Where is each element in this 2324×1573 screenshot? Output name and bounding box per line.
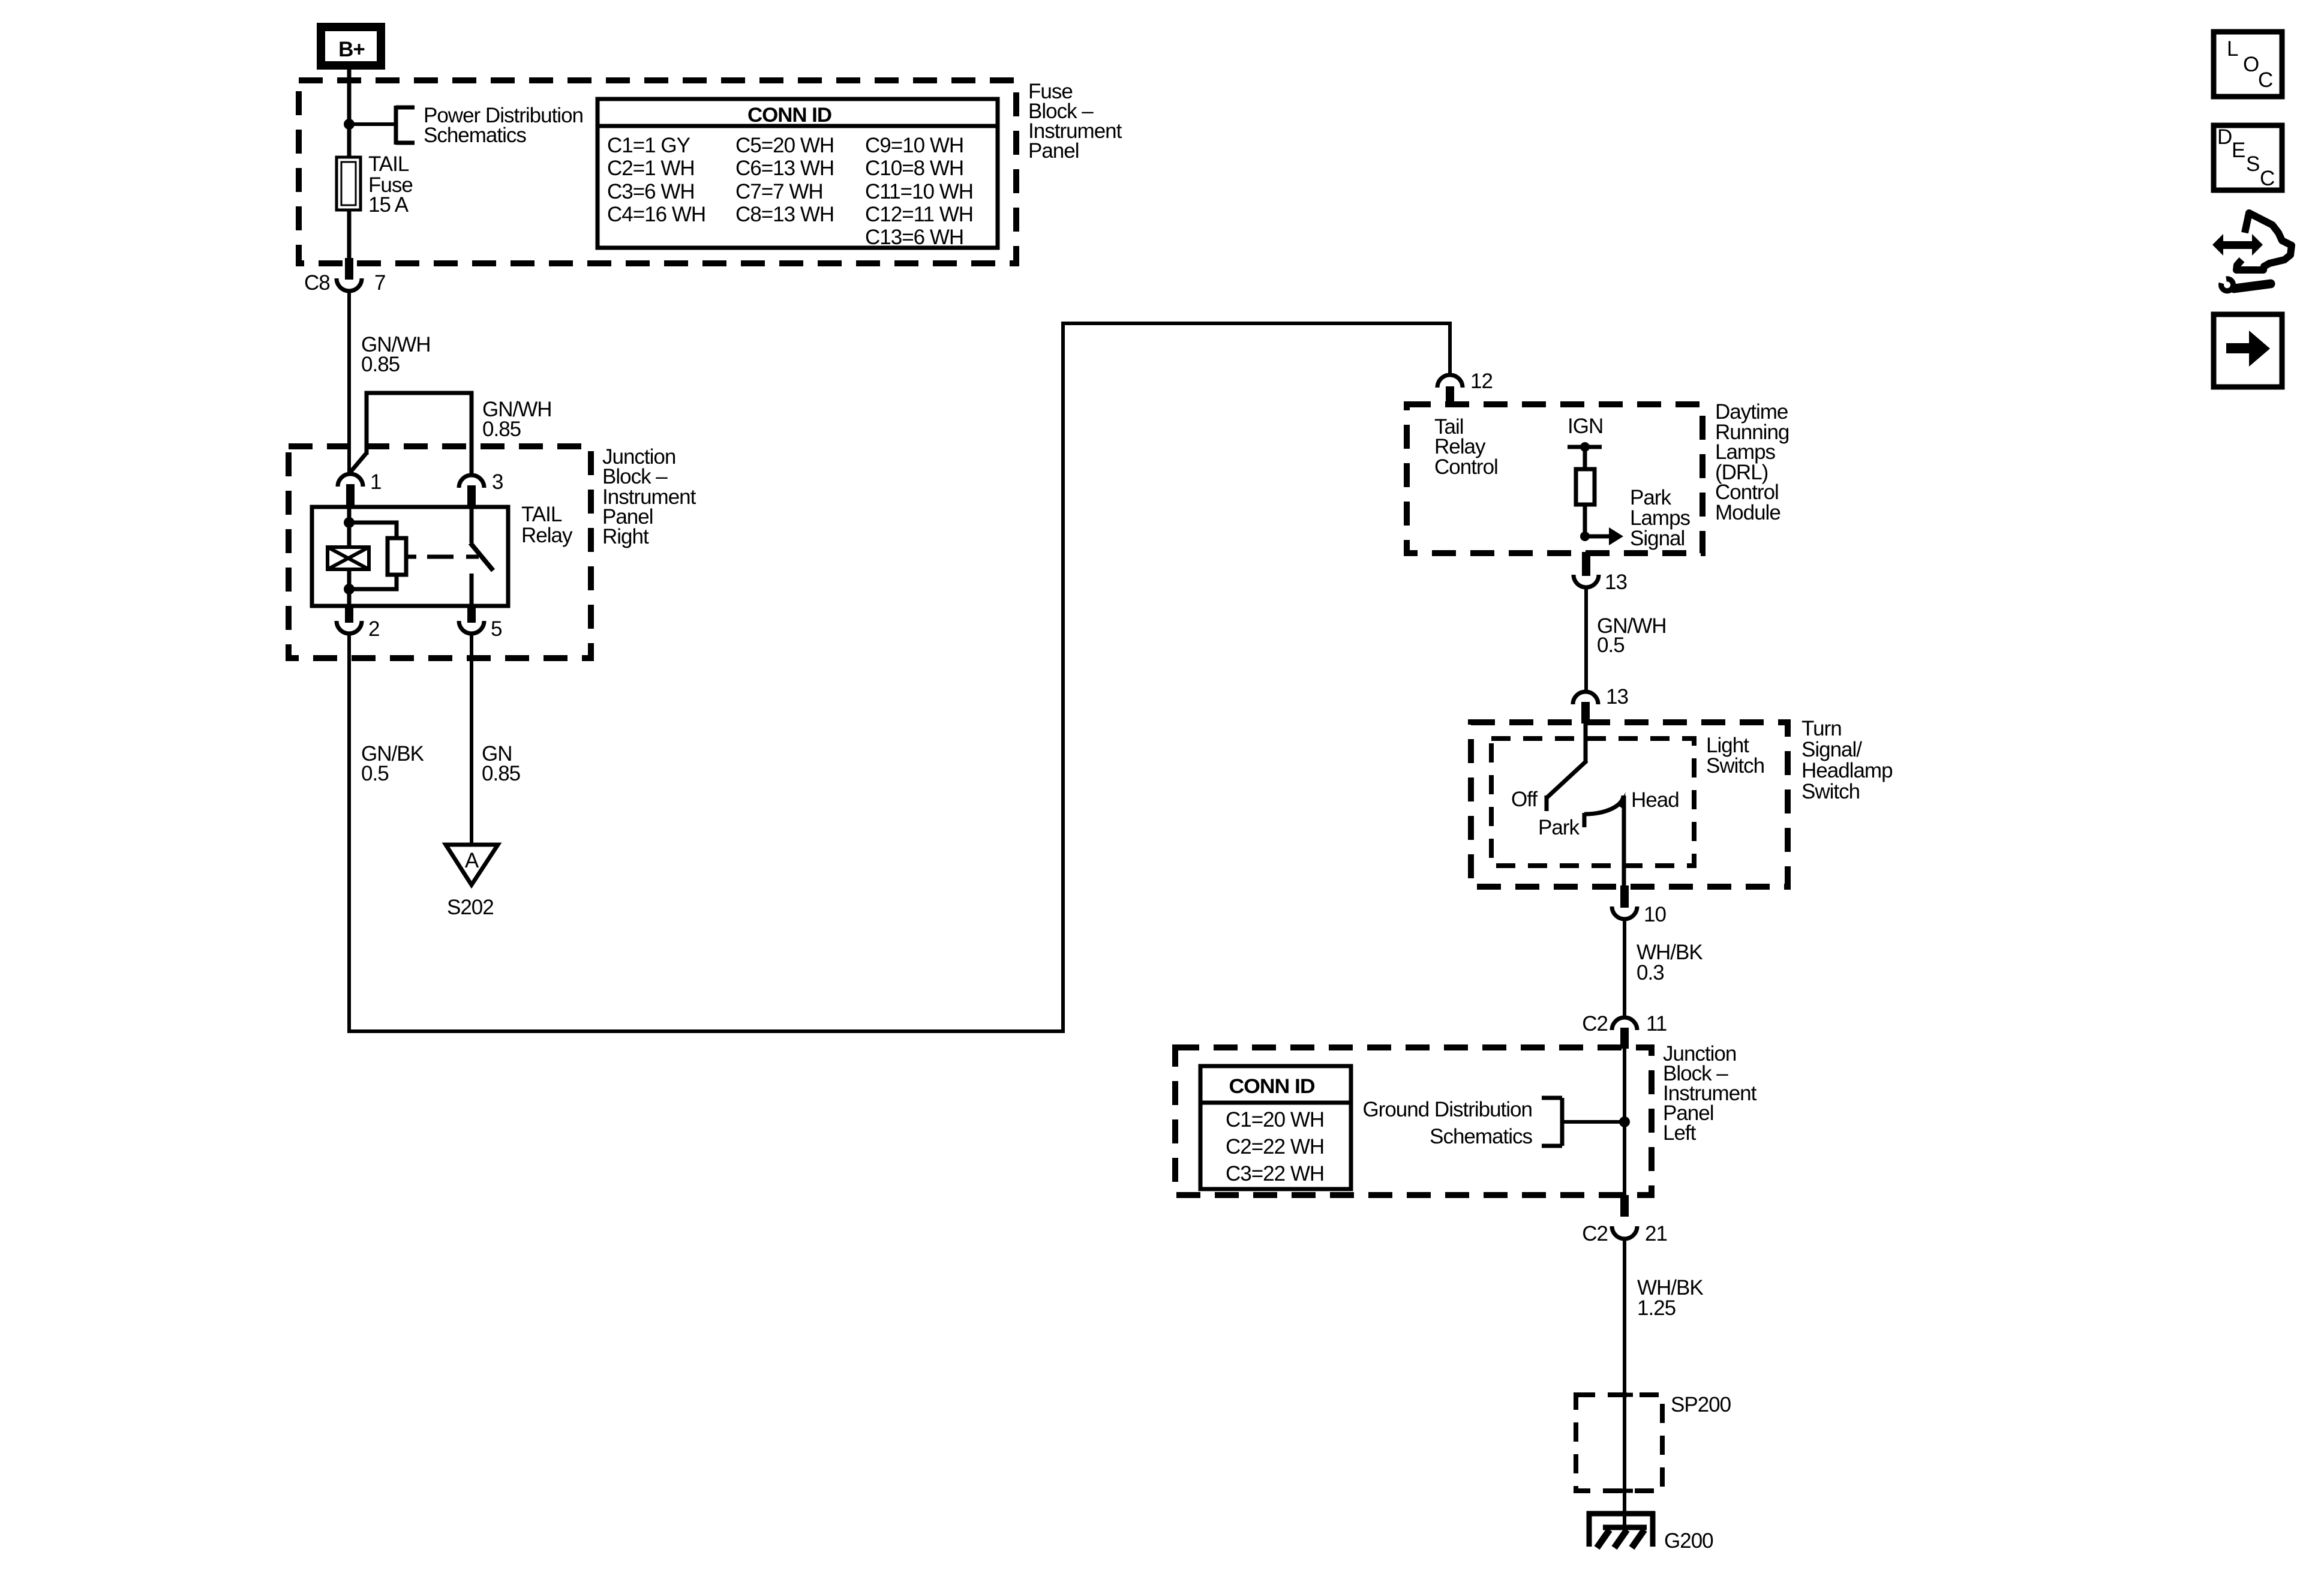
svg-text:C10=8 WH: C10=8 WH: [865, 157, 963, 180]
svg-text:Switch: Switch: [1801, 780, 1860, 803]
svg-text:C1=20 WH: C1=20 WH: [1226, 1108, 1324, 1131]
svg-text:Signal: Signal: [1630, 527, 1685, 550]
svg-text:Signal/: Signal/: [1801, 738, 1862, 761]
svg-text:7: 7: [374, 271, 385, 295]
svg-text:0.85: 0.85: [482, 762, 520, 785]
svg-text:C: C: [2260, 167, 2274, 190]
svg-text:L: L: [2227, 37, 2238, 61]
svg-text:15 A: 15 A: [368, 193, 409, 217]
svg-text:C5=20 WH: C5=20 WH: [735, 134, 834, 157]
svg-text:CONN ID: CONN ID: [747, 104, 831, 127]
svg-text:C: C: [2258, 68, 2272, 92]
svg-text:0.85: 0.85: [361, 353, 400, 376]
svg-text:Ground Distribution: Ground Distribution: [1362, 1098, 1532, 1121]
svg-text:C7=7 WH: C7=7 WH: [735, 180, 823, 203]
svg-text:C1=1 GY: C1=1 GY: [607, 134, 690, 157]
svg-text:D: D: [2217, 125, 2232, 149]
svg-text:C9=10 WH: C9=10 WH: [865, 134, 963, 157]
svg-text:12: 12: [1470, 370, 1493, 393]
svg-text:TAIL: TAIL: [521, 503, 562, 526]
svg-text:3: 3: [492, 470, 503, 494]
svg-text:C3=6 WH: C3=6 WH: [607, 180, 695, 203]
svg-text:Module: Module: [1715, 501, 1780, 524]
svg-text:0.5: 0.5: [361, 762, 389, 785]
svg-text:O: O: [2243, 53, 2259, 76]
svg-text:Head: Head: [1631, 788, 1679, 812]
svg-text:B+: B+: [338, 38, 365, 61]
svg-text:G200: G200: [1664, 1529, 1713, 1553]
svg-text:C6=13 WH: C6=13 WH: [735, 157, 834, 180]
svg-text:10: 10: [1644, 903, 1666, 926]
svg-text:Right: Right: [602, 525, 649, 548]
svg-text:S202: S202: [447, 896, 494, 919]
svg-text:Panel: Panel: [1028, 139, 1079, 163]
svg-text:13: 13: [1606, 685, 1628, 709]
svg-text:Switch: Switch: [1706, 754, 1764, 778]
svg-text:13: 13: [1605, 571, 1627, 594]
svg-text:C8: C8: [304, 271, 330, 295]
svg-text:0.85: 0.85: [482, 418, 521, 441]
svg-text:S: S: [2246, 152, 2259, 176]
svg-text:Control: Control: [1434, 455, 1498, 479]
svg-text:CONN ID: CONN ID: [1229, 1075, 1315, 1098]
svg-text:Turn: Turn: [1801, 717, 1842, 740]
svg-text:TAIL: TAIL: [368, 152, 409, 176]
svg-text:Left: Left: [1663, 1121, 1697, 1145]
svg-text:C4=16 WH: C4=16 WH: [607, 203, 705, 226]
svg-text:1.25: 1.25: [1637, 1296, 1676, 1320]
svg-text:5: 5: [491, 617, 502, 641]
svg-text:Off: Off: [1511, 788, 1538, 811]
svg-text:0.3: 0.3: [1637, 961, 1664, 984]
svg-text:C2: C2: [1582, 1012, 1608, 1035]
svg-text:SP200: SP200: [1671, 1393, 1731, 1416]
svg-text:11: 11: [1646, 1012, 1667, 1035]
svg-text:Schematics: Schematics: [1430, 1125, 1532, 1148]
svg-text:C2: C2: [1582, 1222, 1608, 1245]
svg-text:Park: Park: [1538, 816, 1580, 839]
svg-text:Schematics: Schematics: [424, 124, 526, 147]
svg-text:C11=10 WH: C11=10 WH: [865, 180, 973, 203]
svg-text:Headlamp: Headlamp: [1801, 759, 1893, 782]
svg-text:E: E: [2232, 139, 2245, 162]
svg-text:C13=6 WH: C13=6 WH: [865, 226, 963, 249]
svg-text:C3=22 WH: C3=22 WH: [1226, 1162, 1324, 1185]
svg-text:IGN: IGN: [1568, 415, 1603, 438]
svg-text:0.5: 0.5: [1597, 634, 1625, 657]
svg-text:A: A: [465, 849, 479, 872]
svg-text:Relay: Relay: [521, 524, 573, 547]
svg-text:C8=13 WH: C8=13 WH: [735, 203, 834, 226]
svg-text:C12=11 WH: C12=11 WH: [865, 203, 973, 226]
svg-text:C2=1 WH: C2=1 WH: [607, 157, 695, 180]
svg-text:C2=22 WH: C2=22 WH: [1226, 1135, 1324, 1158]
svg-text:21: 21: [1645, 1222, 1667, 1245]
svg-text:2: 2: [368, 617, 379, 641]
svg-text:1: 1: [370, 470, 381, 494]
